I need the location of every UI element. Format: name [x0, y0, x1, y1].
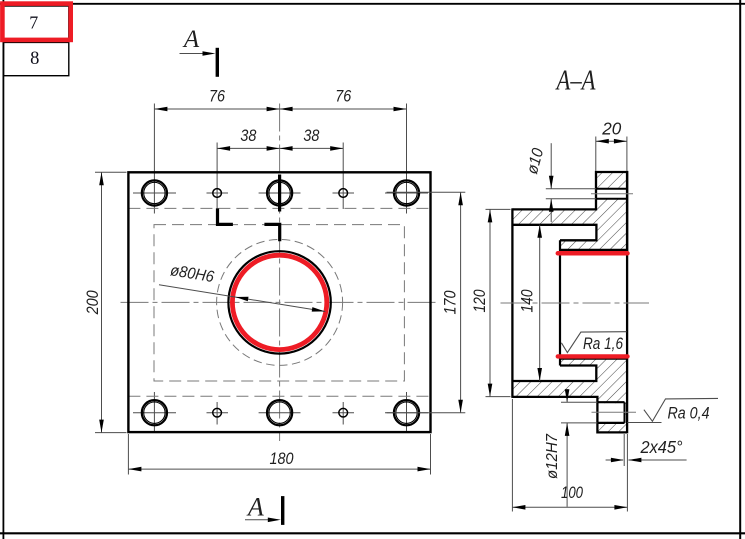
svg-text:76: 76	[335, 86, 351, 105]
section line jog L2	[264, 224, 279, 241]
bolt hole outer r2c1	[142, 400, 167, 425]
section hatch upper	[512, 172, 627, 250]
bolt hole inner r2c3	[269, 402, 290, 423]
dim line 100	[512, 506, 627, 508]
ext line 180 right	[430, 434, 432, 475]
dim line 180	[128, 468, 430, 470]
bolt hole outer r1c5	[394, 180, 419, 205]
dia10 hole bottom thick	[596, 198, 627, 200]
small hole r1c2	[213, 189, 222, 198]
svg-text:7: 7	[29, 13, 38, 33]
extension line col 5 (76 dims)	[406, 104, 408, 214]
small hole r2c4	[339, 408, 348, 417]
ext line 180 left	[127, 434, 129, 475]
hole centerline row1 c2	[207, 192, 229, 194]
dim line dia80H6	[159, 285, 325, 312]
dim line 170	[460, 192, 462, 412]
small hole r1c4	[339, 189, 348, 198]
svg-text:76: 76	[209, 86, 225, 105]
svg-text:A–A: A–A	[555, 66, 596, 97]
dim line 20	[596, 140, 627, 142]
bolt hole outer r2c3	[267, 400, 292, 425]
bolt hole inner r1c3	[269, 182, 290, 203]
dim line dia12H7 lower	[566, 423, 568, 507]
dim line dia10 lower	[550, 199, 552, 222]
dim line 140	[539, 225, 541, 381]
bolt hole outer r1c1	[142, 180, 167, 205]
dia10 hole top ext	[546, 188, 596, 190]
front plate vertical centerline	[279, 104, 281, 442]
section hatch lower	[512, 359, 627, 433]
cross small hole bottom col4 v	[342, 402, 344, 425]
ext 20 right	[626, 137, 628, 172]
svg-text:100: 100	[561, 483, 583, 502]
leader Ra 0,4	[627, 422, 661, 424]
dim line 76	[154, 108, 406, 110]
svg-text:120: 120	[470, 289, 489, 312]
svg-text:180: 180	[270, 449, 294, 468]
section line through top hole	[278, 175, 281, 212]
svg-text:ø12H7: ø12H7	[544, 433, 561, 479]
ext line 200 bottom	[95, 432, 127, 434]
cell box for 8	[4, 6, 69, 76]
dia12 hole centerline	[592, 411, 637, 413]
central bore circle black	[228, 251, 330, 353]
ext 120 top	[486, 208, 511, 210]
svg-text:38: 38	[303, 126, 319, 145]
section left wall	[511, 208, 513, 398]
red highlight bore bottom	[558, 354, 628, 358]
dim line 120	[489, 209, 491, 396]
dim line 38	[217, 147, 343, 149]
ext line 170 top	[387, 191, 466, 193]
centerline bottom hole col 1	[153, 392, 155, 433]
bolt hole inner r2c1	[144, 402, 165, 423]
hole centerline row2 c2	[207, 412, 229, 414]
bolt hole outer r2c5	[394, 400, 419, 425]
svg-text:38: 38	[240, 126, 256, 145]
front plate outline	[128, 172, 430, 432]
dim line dia10 upper	[550, 143, 552, 189]
hole centerline row1 left	[133, 192, 176, 194]
dia10 hole white band	[597, 189, 626, 199]
extension line col 1 (76 dims)	[153, 104, 155, 214]
bolt hole inner r2c5	[396, 402, 417, 423]
svg-text:2x45°: 2x45°	[640, 437, 683, 457]
front plate horizontal centerline	[121, 301, 439, 303]
central bore highlight red ring	[232, 255, 326, 349]
svg-text:170: 170	[440, 290, 459, 314]
section hub right wall	[626, 171, 628, 433]
ext line 200 top	[95, 171, 127, 173]
svg-text:A: A	[182, 26, 200, 53]
dia10 hole bottom ext	[546, 198, 596, 200]
section line jog L1	[218, 208, 233, 224]
hole centerline row2 left	[133, 412, 176, 414]
svg-text:A: A	[246, 492, 264, 521]
section axis centerline	[501, 302, 650, 304]
svg-text:8: 8	[30, 49, 39, 69]
dia10 hole centerline	[591, 193, 633, 195]
bolt hole inner r1c1	[144, 182, 165, 203]
hole centerline row1 right	[385, 192, 428, 194]
extension line col 4 (38 dims)	[342, 143, 344, 210]
dim chamfer arrows	[606, 459, 623, 461]
bore top edge	[560, 250, 627, 252]
hole centerline row2 c4	[333, 412, 355, 414]
ext chamfer left	[623, 434, 625, 466]
ext 100 right	[626, 434, 628, 512]
svg-text:Ra 1,6: Ra 1,6	[583, 334, 623, 353]
hole centerline row2 c3	[259, 412, 301, 414]
dia10 hole top thick	[596, 188, 627, 190]
dia12 hole white band	[599, 403, 624, 422]
section view arrow top	[180, 53, 213, 55]
sheet frame bottom line	[0, 532, 745, 534]
section bore wall	[559, 240, 561, 365]
dia12 hole bottom thick	[597, 422, 624, 424]
hidden dashed rectangle	[154, 225, 404, 381]
hidden dashed line lower	[128, 395, 430, 397]
bolt hole inner r1c5	[396, 182, 417, 203]
bolt hole outer r1c3	[267, 180, 292, 205]
centerline bottom hole col 5	[406, 392, 408, 433]
svg-text:200: 200	[83, 290, 102, 315]
svg-text:20: 20	[601, 119, 621, 139]
small hole r2c2	[213, 408, 222, 417]
dia12 hole right edge chamfer	[624, 402, 626, 423]
hole centerline row2 right	[385, 412, 428, 414]
section view arrow bottom	[245, 519, 278, 521]
hidden dashed line upper	[128, 207, 430, 209]
dim line 200	[101, 172, 103, 432]
extension line col 2 (38 dims)	[216, 143, 218, 210]
cell divider	[4, 41, 69, 43]
section line top bar	[216, 48, 219, 77]
roughness symbol Ra 1,6	[561, 332, 626, 353]
ext 120 bottom	[486, 396, 511, 398]
section outline upper	[512, 172, 627, 250]
ext line 170 bottom	[387, 412, 466, 414]
cross small hole bottom col2 v	[216, 402, 218, 425]
ext 100 left	[511, 399, 513, 512]
red highlight box around 7	[2, 4, 70, 40]
hidden dashed circle	[217, 239, 343, 365]
dia12 hole top ext	[561, 401, 597, 403]
red highlight bore top	[558, 251, 628, 256]
sheet frame left line	[2, 0, 4, 539]
section line bottom bar	[281, 496, 284, 525]
hole centerline row1 c3	[259, 192, 301, 194]
svg-text:Ra 0,4: Ra 0,4	[668, 403, 710, 422]
svg-text:140: 140	[518, 289, 537, 312]
section outline lower	[512, 366, 627, 433]
sheet frame top line	[0, 3, 745, 5]
ext 20 left	[595, 137, 597, 172]
dim line dia12H7 upper	[566, 389, 568, 402]
hole centerline row1 c4	[333, 192, 355, 194]
bore bottom edge	[560, 358, 627, 360]
roughness symbol Ra 0,4	[644, 398, 718, 421]
sheet frame right line	[739, 0, 741, 539]
dia12 hole bottom ext	[561, 422, 597, 424]
dia12 hole top thick	[597, 401, 624, 403]
